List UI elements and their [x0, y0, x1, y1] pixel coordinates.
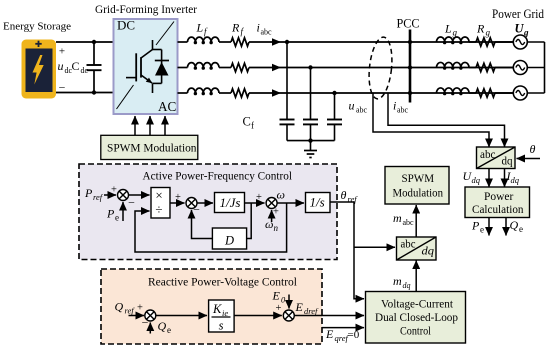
svg-text:g: g	[486, 28, 491, 38]
svg-text:abc: abc	[480, 149, 496, 161]
svg-text:Q: Q	[158, 319, 167, 333]
svg-text:dq: dq	[422, 244, 435, 258]
svg-text:Energy Storage: Energy Storage	[3, 21, 71, 33]
svg-text:+: +	[59, 46, 65, 58]
svg-text:Q: Q	[510, 218, 519, 232]
svg-text:Reactive Power-Voltage Control: Reactive Power-Voltage Control	[148, 277, 297, 289]
svg-text:dq: dq	[472, 175, 481, 185]
svg-text:abc: abc	[403, 218, 415, 227]
svg-text:dq: dq	[511, 175, 520, 185]
svg-text:C: C	[243, 115, 251, 129]
svg-text:÷: ÷	[155, 202, 162, 217]
svg-text:1/Js: 1/Js	[220, 196, 241, 210]
svg-text:e: e	[115, 213, 119, 223]
svg-text:P: P	[471, 219, 480, 233]
svg-text:Q: Q	[115, 300, 124, 314]
svg-text:dc: dc	[81, 66, 89, 75]
svg-text:=0: =0	[348, 329, 360, 341]
svg-text:Modulation: Modulation	[393, 188, 444, 200]
svg-text:E: E	[325, 327, 334, 341]
svg-text:Grid-Forming Inverter: Grid-Forming Inverter	[95, 3, 197, 16]
svg-text:K: K	[212, 302, 222, 316]
svg-text:dref: dref	[304, 306, 319, 316]
svg-text:i: i	[257, 21, 260, 35]
svg-text:L: L	[444, 22, 452, 36]
svg-text:θ: θ	[530, 142, 536, 156]
svg-text:+: +	[175, 192, 181, 203]
svg-text:m: m	[393, 211, 402, 225]
svg-text:DC: DC	[117, 18, 135, 33]
svg-text:R: R	[476, 22, 485, 36]
svg-text:L: L	[196, 21, 204, 35]
svg-text:U: U	[515, 22, 525, 36]
svg-text:AC: AC	[158, 99, 177, 114]
svg-text:1/s: 1/s	[310, 195, 325, 210]
svg-text:E: E	[272, 289, 281, 303]
svg-text:e: e	[480, 225, 484, 235]
svg-text:s: s	[219, 319, 224, 333]
svg-text:u: u	[58, 59, 64, 73]
svg-text:C: C	[72, 59, 80, 73]
svg-text:u: u	[349, 99, 355, 113]
svg-text:e: e	[167, 325, 171, 335]
svg-text:−: −	[128, 196, 135, 210]
svg-text:Control: Control	[400, 326, 431, 338]
svg-text:abc: abc	[401, 237, 416, 251]
svg-text:Dual Closed-Loop: Dual Closed-Loop	[375, 312, 458, 324]
svg-text:ω: ω	[265, 217, 273, 231]
svg-text:E: E	[295, 300, 304, 314]
svg-text:dq: dq	[403, 281, 411, 290]
svg-text:+: +	[273, 207, 279, 218]
svg-text:−: −	[142, 316, 149, 330]
svg-text:n: n	[274, 223, 279, 233]
svg-text:PCC: PCC	[397, 17, 420, 31]
svg-text:−: −	[59, 81, 66, 95]
svg-text:abc: abc	[397, 106, 409, 115]
svg-text:g: g	[523, 28, 529, 38]
svg-text:Power: Power	[484, 191, 513, 203]
svg-text:θ: θ	[341, 188, 347, 202]
svg-text:SPWM: SPWM	[402, 173, 435, 185]
svg-text:R: R	[231, 21, 240, 35]
svg-text:g: g	[453, 28, 458, 38]
svg-text:+: +	[276, 303, 282, 314]
svg-text:e: e	[519, 224, 523, 234]
svg-text:SPWM Modulation: SPWM Modulation	[107, 143, 197, 155]
svg-text:i: i	[393, 99, 396, 113]
svg-text:m: m	[393, 274, 402, 288]
svg-text:Power Grid: Power Grid	[492, 7, 544, 21]
svg-text:P: P	[84, 186, 93, 200]
svg-text:dq: dq	[502, 156, 513, 168]
svg-text:Voltage-Current: Voltage-Current	[381, 299, 454, 311]
svg-text:−: −	[193, 203, 200, 217]
svg-text:×: ×	[155, 188, 162, 203]
svg-text:Calculation: Calculation	[472, 204, 524, 216]
svg-text:ω: ω	[277, 188, 285, 202]
svg-text:f: f	[251, 121, 254, 131]
svg-text:+: +	[111, 185, 117, 196]
svg-text:abc: abc	[261, 28, 273, 37]
svg-text:abc: abc	[356, 106, 368, 115]
svg-text:Active Power-Frequency Control: Active Power-Frequency Control	[143, 171, 293, 183]
svg-text:+: +	[137, 303, 143, 314]
svg-text:D: D	[224, 234, 234, 248]
svg-text:P: P	[106, 207, 115, 221]
svg-text:+: +	[256, 192, 262, 203]
